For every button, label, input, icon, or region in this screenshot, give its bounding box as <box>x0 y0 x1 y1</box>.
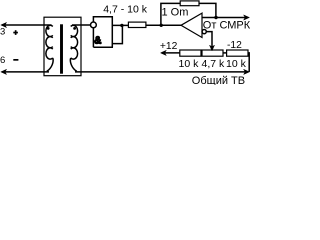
wire common rail <box>75 71 247 73</box>
transformer T1 primary winding <box>46 25 53 59</box>
svg-text:+12: +12 <box>160 41 178 52</box>
node feedback to output <box>214 16 217 19</box>
wire +12 feed <box>162 52 180 54</box>
resistor R4 4,7k body <box>202 50 223 56</box>
wire gate left side down <box>92 28 94 47</box>
resistor R3 10k body <box>180 50 201 56</box>
svg-text:4,7 k: 4,7 k <box>202 58 226 70</box>
transformer T1 primary polarity dot <box>47 27 50 30</box>
transformer T1 secondary winding <box>71 25 78 59</box>
svg-text:&: & <box>94 36 101 47</box>
node junction on gate output <box>120 24 123 27</box>
wire gate bottom <box>93 46 113 48</box>
label polarity minus <box>13 59 18 61</box>
transformer T1 box <box>44 17 81 75</box>
svg-text:Общий ТВ: Общий ТВ <box>192 75 245 85</box>
wire comparator output <box>202 17 247 19</box>
transformer T1 secondary polarity dot <box>73 27 76 30</box>
arrow left terminal bottom <box>1 69 7 74</box>
label polarity plus <box>13 30 18 35</box>
resistor R1 4,7-10k body <box>128 22 146 27</box>
svg-text:6: 6 <box>0 55 5 66</box>
arrow down to divider <box>210 45 215 51</box>
gate DD1 input bubble <box>91 22 97 28</box>
resistor R2 1 Ohm body <box>180 1 199 6</box>
svg-text:От СМРК: От СМРК <box>203 20 250 32</box>
wire gate loop over top <box>93 17 112 47</box>
arrow right terminal common <box>244 69 250 74</box>
svg-text:10 k: 10 k <box>226 58 247 70</box>
arrow left +12 terminal <box>161 50 167 55</box>
wire R4-R5 <box>223 52 227 54</box>
transformer T1 core <box>60 25 63 74</box>
wire reference input <box>206 32 212 48</box>
arrow left terminal top <box>1 22 7 27</box>
resistor R5 10k body <box>227 50 248 56</box>
wire gate output <box>112 24 128 26</box>
comparator U1 reference bubble <box>202 30 206 34</box>
wire R3-R4 <box>201 52 202 54</box>
wire R1 to comparator input <box>146 24 181 26</box>
wire secondary top to gate <box>72 24 90 26</box>
wire feedback right leg <box>199 3 216 17</box>
svg-text:10 k: 10 k <box>179 58 200 70</box>
wire feedback left leg <box>161 3 180 25</box>
svg-text:3: 3 <box>0 27 5 38</box>
svg-text:4,7 - 10 k: 4,7 - 10 k <box>103 4 148 16</box>
node feedback tap <box>160 24 163 27</box>
svg-text:-12: -12 <box>227 40 242 51</box>
svg-text:1 Om: 1 Om <box>162 6 189 18</box>
wire input top-left (+3V) <box>3 24 52 26</box>
wire gate inner step <box>112 25 122 43</box>
comparator U1 triangle <box>181 13 202 37</box>
wire input bottom-left (-6V) <box>3 71 50 73</box>
arrow right terminal output <box>244 15 250 20</box>
wire R5 to -12 rail <box>248 53 249 72</box>
